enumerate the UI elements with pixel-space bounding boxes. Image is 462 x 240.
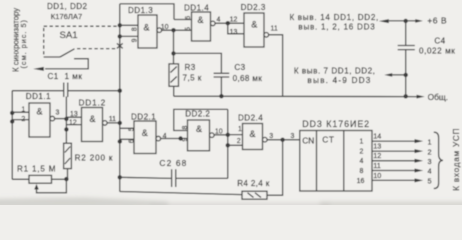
gate DD1.4 input stub pin6 (174, 19, 192, 21)
svg-text:13: 13 (373, 142, 381, 151)
wire DD1.2 out to node (107, 122, 120, 124)
svg-text:12: 12 (373, 151, 381, 160)
svg-text:1: 1 (428, 137, 432, 146)
svg-text:&: & (144, 22, 150, 32)
svg-text:1: 1 (360, 139, 364, 146)
svg-text:5: 5 (428, 177, 432, 186)
wire +6V (389, 20, 416, 22)
svg-text:Общ.: Общ. (428, 92, 449, 102)
counter DD3 box (300, 131, 372, 192)
arrow to pin7 (left) (384, 73, 392, 77)
gate DD1.1 output bubble (50, 116, 55, 121)
curly brace (434, 132, 443, 188)
resistor R2 (64, 143, 72, 168)
svg-text:R1 1,5 M: R1 1,5 M (17, 165, 56, 174)
switch SA1 right contact and return wire (45, 59, 88, 69)
gate DD2.1 box (134, 121, 156, 154)
switch SA1 dashed link from blade tip (77, 48, 116, 50)
svg-text:5: 5 (185, 27, 192, 31)
svg-text:R2 200 к: R2 200 к (75, 154, 114, 163)
svg-text:8: 8 (132, 27, 139, 31)
arrow to synchronizer (33, 67, 44, 71)
wire DD2.3 pin13 branch (228, 23, 244, 34)
svg-text:DD1.2: DD1.2 (79, 97, 107, 107)
capacitor C2 plates (172, 169, 176, 187)
wire: C1 left wire (12, 90, 64, 92)
svg-text:К входам УСП: К входам УСП (452, 128, 461, 191)
svg-text:11: 11 (271, 26, 278, 33)
switch SA1 blade (60, 49, 75, 57)
svg-text:1 мк: 1 мк (65, 72, 83, 81)
divider CT (343, 131, 345, 192)
wire rail to R1 (12, 178, 29, 180)
node dot R4 branch (280, 138, 284, 142)
svg-text:1: 1 (21, 107, 25, 114)
node dot R2 branch (64, 127, 68, 131)
svg-text:12: 12 (230, 17, 238, 24)
svg-text:4: 4 (428, 167, 432, 176)
svg-text:3: 3 (56, 110, 60, 117)
switch SA1 dashed box left edge (43, 28, 45, 57)
svg-text:2: 2 (428, 147, 432, 156)
capacitor C1 plates (64, 83, 68, 98)
resistor R4 (242, 191, 267, 199)
gate DD1.1 box (29, 103, 50, 137)
svg-text:К176ЛА7: К176ЛА7 (51, 12, 82, 21)
node: vertical DD1.1-out / DD1.2-in / R2 (65, 97, 67, 144)
svg-text:&: & (142, 128, 148, 138)
wire R2 bottom (67, 169, 69, 180)
svg-text:2: 2 (360, 149, 364, 156)
gate DD2.2 output bubble (210, 133, 215, 138)
gate DD1.4 output bubble (211, 21, 216, 26)
capacitor C4 vertical wire (405, 21, 407, 97)
wire R3 bottom to rail (173, 86, 175, 96)
arrow +6V (right) (415, 19, 423, 23)
wire pin7 line (392, 74, 406, 76)
wire R1 right (52, 178, 67, 180)
output wire 4 (372, 170, 415, 172)
resistor R3 (169, 64, 179, 86)
wire DD2.3 out down to common rail (269, 35, 283, 96)
svg-text:12: 12 (69, 119, 77, 126)
wire DD2.4 out to DD3 (267, 139, 300, 141)
gate DD2.4 box (243, 124, 263, 150)
wire C2 right (176, 177, 228, 179)
wire DD1.4 out to DD2.3 (215, 22, 244, 24)
gate DD2.4 output bubble (263, 137, 268, 142)
wire C3 branch (174, 53, 222, 72)
node dot DD1.1 pin1 (10, 111, 14, 115)
svg-text:0,68 мк: 0,68 мк (233, 74, 263, 83)
svg-text:CT: CT (322, 135, 334, 145)
svg-text:DD1, DD2: DD1, DD2 (47, 2, 88, 11)
svg-text:3: 3 (428, 157, 432, 166)
node dot C1 (118, 89, 122, 93)
arrow Общ (417, 95, 425, 99)
svg-text:C3: C3 (234, 63, 245, 72)
svg-text:&: & (250, 129, 256, 139)
svg-text:7,5 к: 7,5 к (183, 74, 202, 83)
svg-text:6: 6 (185, 16, 192, 20)
gate DD1.1 input stubs (12, 112, 29, 119)
svg-text:DD2.4: DD2.4 (238, 113, 263, 122)
capacitor C3 plates (214, 73, 230, 77)
wire: top link to DD1.4 pin6 (120, 4, 174, 20)
gate DD2.1 output bubble (156, 136, 161, 141)
node: vertical x=227.8 (bracket / DD2.4 inputs / C2) (227, 109, 229, 178)
gate DD2.3 output bubble (264, 33, 269, 38)
node dot C2 (118, 175, 122, 179)
svg-text:4: 4 (217, 17, 221, 24)
switch SA1 left contact (44, 56, 60, 58)
svg-text:9: 9 (182, 138, 189, 142)
node dot DD2.1 in (118, 139, 122, 143)
switch SA1 dashed link to node (top) (44, 25, 117, 27)
arrow to +6V rail (left) (379, 19, 389, 23)
node dot C4 on rail (404, 94, 408, 98)
node dot C3 branch (171, 51, 175, 55)
svg-text:10: 10 (373, 171, 381, 180)
svg-text:2: 2 (237, 138, 241, 145)
gate DD1.3 output bubble (157, 28, 162, 33)
node dot +6V (404, 19, 408, 23)
node dot pin3 junction (64, 117, 68, 121)
svg-text:К выв. 14 DD1, DD2,: К выв. 14 DD1, DD2, (289, 13, 379, 22)
wire DD2.4 node down to R4 (267, 140, 283, 195)
svg-text:CN: CN (302, 135, 314, 145)
node dot pin7 on C4 wire (404, 73, 408, 77)
svg-text:16: 16 (357, 178, 365, 185)
svg-text:R4 2,4 к: R4 2,4 к (237, 179, 270, 188)
capacitor C4 plates (398, 46, 415, 50)
svg-text:&: & (251, 20, 257, 30)
bottom rail wire (120, 192, 242, 195)
node: DD1.3 out vertical to R3/C3 (173, 30, 175, 64)
gate DD2.2 box (188, 120, 210, 151)
svg-text:9: 9 (132, 38, 139, 42)
svg-text:&: & (196, 124, 202, 134)
gate DD2.1 input stubs (120, 128, 134, 139)
node dot C3 on rail (219, 94, 223, 98)
node dot DD2.2 out (226, 133, 230, 137)
svg-text:+6 В: +6 В (427, 16, 447, 26)
output wire 2 (372, 150, 415, 152)
svg-text:R3: R3 (185, 63, 196, 72)
gate DD1.3 box (138, 15, 157, 48)
svg-text:5: 5 (129, 127, 136, 131)
node dot dashed/pin8 (118, 23, 122, 27)
svg-text:2: 2 (21, 116, 25, 123)
gate DD1.2 box (82, 108, 103, 142)
node dot R1/R2 junction (64, 177, 68, 181)
wire C2 left (120, 177, 172, 178)
svg-text:&: & (37, 107, 43, 117)
svg-text:DD2.3: DD2.3 (241, 3, 266, 12)
svg-text:11: 11 (373, 161, 381, 170)
svg-text:C2 68: C2 68 (159, 158, 187, 168)
node dot DD1.2 out (118, 121, 122, 125)
svg-text:13: 13 (230, 29, 238, 36)
svg-text:DD1.4: DD1.4 (184, 3, 209, 12)
svg-text:DD2.2: DD2.2 (185, 110, 210, 119)
gate DD2.3 box (244, 13, 264, 47)
svg-text:DD3 К176ИЕ2: DD3 К176ИЕ2 (302, 119, 370, 129)
gate DD1.4 box (192, 12, 211, 41)
R1 wiper arrow (34, 184, 39, 190)
svg-text:C4: C4 (434, 37, 445, 46)
node: left vertical rail (C1 left / DD1.1 inputs / R1) (11, 91, 13, 180)
svg-text:14: 14 (373, 132, 381, 141)
output wire 1 (372, 140, 415, 142)
svg-text:4: 4 (360, 158, 364, 165)
svg-text:&: & (198, 15, 204, 25)
svg-text:1: 1 (238, 126, 242, 133)
node: main vertical x=119.8 (119, 4, 121, 192)
svg-text:11: 11 (109, 116, 116, 123)
node dot DD2.3 in (226, 21, 230, 25)
node dot on wire (178, 136, 182, 140)
svg-text:8: 8 (182, 126, 189, 130)
svg-text:DD2.1: DD2.1 (131, 112, 156, 121)
svg-text:(см. рис. 5): (см. рис. 5) (19, 19, 28, 68)
wire DD1.3 out (162, 29, 192, 31)
common rail (Общ) (174, 95, 417, 97)
svg-text:13: 13 (70, 111, 78, 118)
wire C3 bottom (220, 77, 222, 96)
gate DD1.2 output bubble (103, 121, 108, 126)
output wire 3 (372, 160, 415, 162)
wire DD2.2 out to node (214, 134, 228, 136)
svg-text:8: 8 (360, 168, 364, 175)
svg-text:6: 6 (129, 139, 136, 143)
node dot DD1.1 pin2 (10, 119, 14, 123)
output wire 5 (372, 179, 415, 181)
gate DD1.3 input stubs (120, 25, 138, 36)
gate DD1.2 input stubs (66, 117, 81, 124)
node dot pin9 (118, 34, 122, 38)
svg-text:3: 3 (291, 133, 295, 140)
wire DD2.1 out to DD2.2 pin9 (161, 138, 188, 140)
svg-text:DD1.1: DD1.1 (26, 92, 51, 101)
svg-text:0,022 мк: 0,022 мк (419, 47, 455, 56)
node dot DD1.3 out (171, 28, 175, 32)
svg-text:выв. 4-9 DD3: выв. 4-9 DD3 (307, 75, 371, 85)
node dot DD2.4 pin2 (226, 143, 230, 147)
gate DD2.4 input stubs (228, 135, 243, 146)
resistor R1 (variable) (29, 175, 52, 183)
feedback bracket to pin8 (174, 109, 228, 130)
svg-text:&: & (90, 114, 96, 124)
svg-text:C1: C1 (48, 72, 59, 81)
divider CN (316, 131, 318, 192)
wire: C1 right to node (68, 90, 120, 92)
svg-text:DD1.3: DD1.3 (128, 6, 153, 15)
x mark on node line (117, 43, 123, 48)
wire DD1.1 out to node (55, 118, 67, 120)
svg-text:SA1: SA1 (60, 30, 78, 41)
svg-text:выв. 1, 2, 16 DD3: выв. 1, 2, 16 DD3 (298, 23, 375, 32)
svg-text:3: 3 (269, 133, 273, 140)
